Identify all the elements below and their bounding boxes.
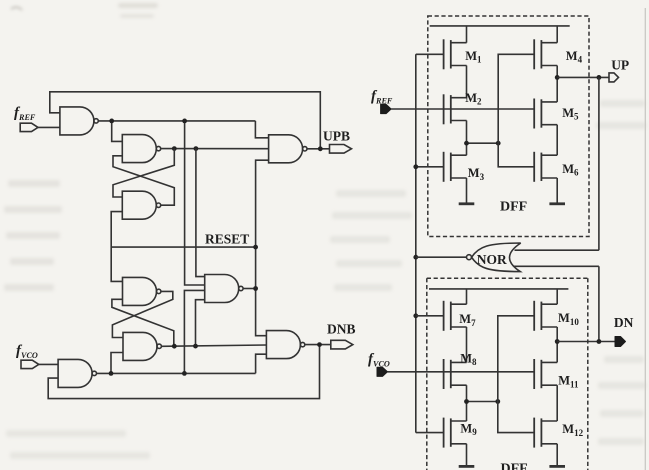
svg-text:DFF: DFF [501,462,528,470]
svg-text:DFF: DFF [500,200,527,215]
svg-text:DNB: DNB [327,322,356,337]
svg-text:DN: DN [614,315,634,330]
svg-text:RESET: RESET [205,231,249,246]
svg-text:UPB: UPB [323,128,350,143]
svg-text:NOR: NOR [477,252,507,267]
svg-text:UP: UP [611,58,629,73]
